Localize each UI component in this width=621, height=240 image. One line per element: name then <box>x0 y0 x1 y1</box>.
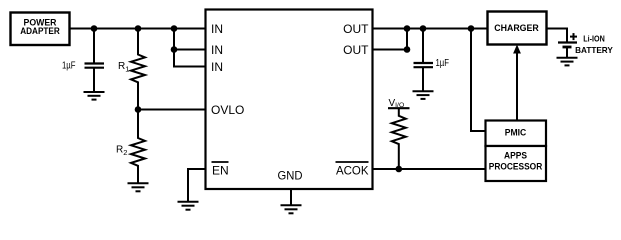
svg-text:PMIC: PMIC <box>505 127 527 137</box>
svg-text:APPS: APPS <box>504 150 527 160</box>
ground (C1) <box>84 92 105 100</box>
pin label EN with overline <box>212 162 229 177</box>
svg-text:OVLO: OVLO <box>211 103 244 117</box>
wire: to IN2 <box>174 49 206 51</box>
node: junction at C2 tap <box>420 25 427 32</box>
node: junction at R1 tap <box>135 25 142 32</box>
wire: OUT2 link <box>372 29 407 50</box>
svg-text:CHARGER: CHARGER <box>494 23 539 33</box>
svg-text:ACOK: ACOK <box>336 163 369 177</box>
svg-text:GND: GND <box>278 168 303 182</box>
svg-text:1µF: 1µF <box>436 58 450 69</box>
node: junction OUT2 <box>404 46 411 53</box>
svg-text:PROCESSOR: PROCESSOR <box>489 161 543 171</box>
wire: IN bus vertical <box>173 29 175 67</box>
pin label ACOK with overline <box>336 162 369 177</box>
wire: to OVLO <box>138 109 206 111</box>
ground (C2) <box>413 91 434 99</box>
node: junction at PMIC tap <box>468 25 475 32</box>
svg-text:IN: IN <box>211 22 223 36</box>
ground (battery) <box>557 58 578 66</box>
node: junction at IN2 <box>171 46 178 53</box>
wire: EN to ground <box>188 169 206 202</box>
PMIC box <box>486 121 547 147</box>
svg-text:OUT: OUT <box>343 43 369 57</box>
wire: OUT1 to charger <box>372 28 488 30</box>
supply rail V_I/O <box>388 98 410 109</box>
IC box U1 <box>206 10 373 190</box>
battery B1 plates <box>558 43 577 58</box>
svg-text:IN: IN <box>211 60 223 74</box>
ground (R2) <box>128 183 149 191</box>
wire: GND pin stub <box>290 189 292 205</box>
wire: charger to battery <box>547 29 568 43</box>
battery plus sign <box>570 33 577 40</box>
power adapter box <box>11 13 70 46</box>
svg-text:IN: IN <box>211 43 223 57</box>
wire: adapter output to IN1 <box>70 28 207 30</box>
svg-text:ADAPTER: ADAPTER <box>20 26 60 36</box>
svg-text:BATTERY: BATTERY <box>575 46 613 55</box>
ground (EN) <box>178 202 199 210</box>
node: junction ACOK pull-up <box>396 166 403 173</box>
wire: ACOK to APPS processor <box>372 168 486 170</box>
resistor R3 (ACOK pull-up) <box>392 108 406 169</box>
capacitor C1 1uF <box>85 29 105 92</box>
resistor R1 <box>131 29 145 110</box>
svg-text:1µF: 1µF <box>62 60 76 71</box>
capacitor C2 1uF <box>414 29 434 92</box>
node: junction at C1 tap <box>91 25 98 32</box>
APPS processor box <box>486 146 547 181</box>
label: LI-ION BATTERY <box>575 35 613 56</box>
resistor R2 <box>131 110 145 184</box>
wire: PMIC to charger with arrow <box>513 45 521 121</box>
node: junction at OVLO <box>135 106 142 113</box>
node: junction at IN bus tap <box>171 25 178 32</box>
node: junction OUT bus lower <box>404 25 411 32</box>
wire: OUT bus to PMIC <box>471 29 486 132</box>
wire: to IN3 <box>173 66 206 68</box>
charger box <box>488 12 547 45</box>
svg-text:Li-ION: Li-ION <box>583 35 605 44</box>
svg-text:OUT: OUT <box>343 22 369 36</box>
ground (GND pin) <box>281 205 302 213</box>
svg-text:EN: EN <box>212 163 229 177</box>
